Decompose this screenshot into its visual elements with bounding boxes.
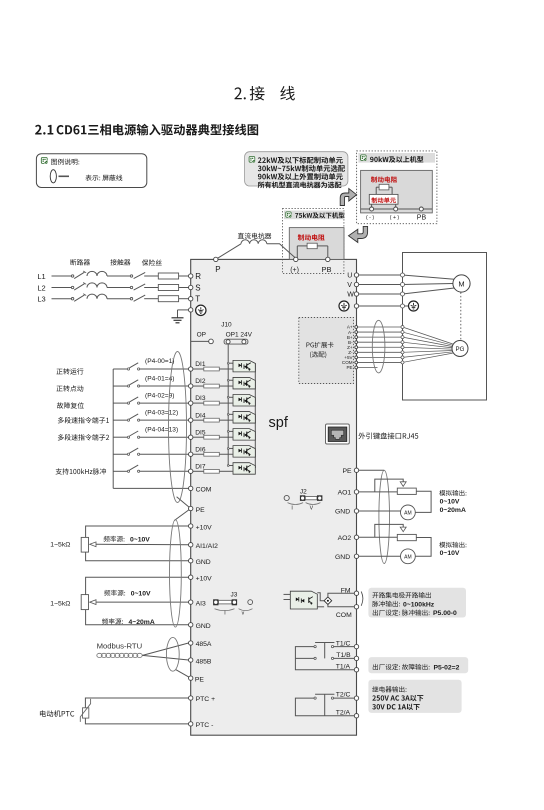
- svg-text:I: I: [224, 611, 225, 617]
- svg-text:AI3: AI3: [196, 600, 206, 607]
- svg-text:R: R: [195, 272, 201, 281]
- svg-text:0~20mA: 0~20mA: [440, 507, 466, 514]
- svg-text:PB: PB: [322, 265, 332, 274]
- svg-text:I: I: [291, 505, 292, 511]
- svg-text:PB: PB: [417, 215, 427, 222]
- svg-text:AO1: AO1: [338, 490, 352, 497]
- svg-text:(P4-00=1): (P4-00=1): [145, 358, 175, 365]
- svg-text:PTC +: PTC +: [196, 696, 215, 703]
- svg-text:0~100kHz: 0~100kHz: [403, 601, 435, 608]
- svg-text:+10V: +10V: [196, 525, 213, 532]
- svg-text:PE: PE: [343, 468, 353, 475]
- svg-text:v: v: [242, 610, 245, 616]
- svg-text:DI4: DI4: [195, 412, 206, 419]
- svg-text:PE: PE: [195, 677, 205, 684]
- svg-text:DI2: DI2: [195, 378, 206, 385]
- svg-text:V: V: [347, 282, 352, 289]
- svg-text:1~5kΩ: 1~5kΩ: [50, 542, 70, 549]
- svg-text:0~10V: 0~10V: [440, 499, 460, 506]
- svg-text:P5.00-0: P5.00-0: [433, 610, 457, 617]
- svg-text:P: P: [215, 265, 220, 274]
- svg-text:T1/C: T1/C: [336, 640, 351, 647]
- svg-text:OP1 24V: OP1 24V: [226, 331, 253, 338]
- svg-text:DI3: DI3: [195, 395, 206, 402]
- svg-text:J10: J10: [221, 322, 232, 329]
- svg-text:V: V: [310, 506, 314, 512]
- svg-text:COM: COM: [336, 612, 352, 619]
- svg-text:485A: 485A: [196, 641, 212, 648]
- svg-text:PG: PG: [456, 346, 465, 353]
- svg-text:AO2: AO2: [338, 535, 352, 542]
- svg-text:(+): (+): [290, 267, 299, 274]
- svg-text:T2/A: T2/A: [336, 709, 351, 716]
- svg-text:GND: GND: [335, 508, 350, 515]
- svg-text:Modbus-RTU: Modbus-RTU: [97, 642, 143, 651]
- svg-text:T: T: [195, 295, 200, 304]
- svg-text:J2: J2: [300, 488, 307, 495]
- svg-text:PE: PE: [196, 507, 206, 514]
- svg-text:L2: L2: [37, 283, 45, 292]
- svg-text:(P4-02=9): (P4-02=9): [145, 392, 175, 399]
- svg-text:L1: L1: [37, 272, 45, 281]
- svg-text:485B: 485B: [196, 658, 212, 665]
- svg-text:( - ): ( - ): [366, 215, 374, 221]
- svg-text:PE: PE: [346, 365, 352, 370]
- svg-text:DI1: DI1: [195, 361, 206, 368]
- svg-text:U: U: [347, 273, 352, 280]
- svg-text:AI1/AI2: AI1/AI2: [196, 543, 219, 550]
- svg-text:0~10V: 0~10V: [440, 550, 460, 557]
- svg-text:DI5: DI5: [195, 429, 206, 436]
- svg-text:COM: COM: [196, 487, 212, 494]
- svg-text:GND: GND: [335, 554, 350, 561]
- svg-text:P5-02=2: P5-02=2: [434, 664, 460, 671]
- svg-text:GND: GND: [196, 559, 211, 566]
- svg-text:T1/A: T1/A: [336, 663, 351, 670]
- svg-text:AM: AM: [404, 554, 412, 560]
- svg-text:DI6: DI6: [195, 446, 206, 453]
- svg-text:1~5kΩ: 1~5kΩ: [50, 600, 70, 607]
- svg-text:OP: OP: [197, 331, 206, 338]
- svg-text:(P4-03=12): (P4-03=12): [145, 409, 178, 416]
- svg-text:AM: AM: [404, 510, 412, 516]
- svg-text:PTC -: PTC -: [196, 722, 214, 729]
- svg-text:DI7: DI7: [195, 463, 206, 470]
- svg-text:M: M: [458, 279, 464, 288]
- svg-text:T2/C: T2/C: [336, 692, 351, 699]
- svg-text:J3: J3: [231, 592, 238, 599]
- svg-text:0~10V: 0~10V: [130, 536, 150, 543]
- svg-text:T1/B: T1/B: [336, 652, 351, 659]
- svg-text:+10V: +10V: [196, 576, 213, 583]
- svg-text:S: S: [195, 283, 200, 292]
- svg-text:( + ): ( + ): [390, 215, 400, 221]
- svg-text:GND: GND: [196, 623, 211, 630]
- svg-text:0~10V: 0~10V: [131, 590, 151, 597]
- svg-text:(P4-04=13): (P4-04=13): [145, 426, 178, 433]
- svg-text:W: W: [347, 292, 354, 299]
- svg-text:L3: L3: [37, 295, 45, 304]
- svg-text:spf: spf: [269, 415, 289, 431]
